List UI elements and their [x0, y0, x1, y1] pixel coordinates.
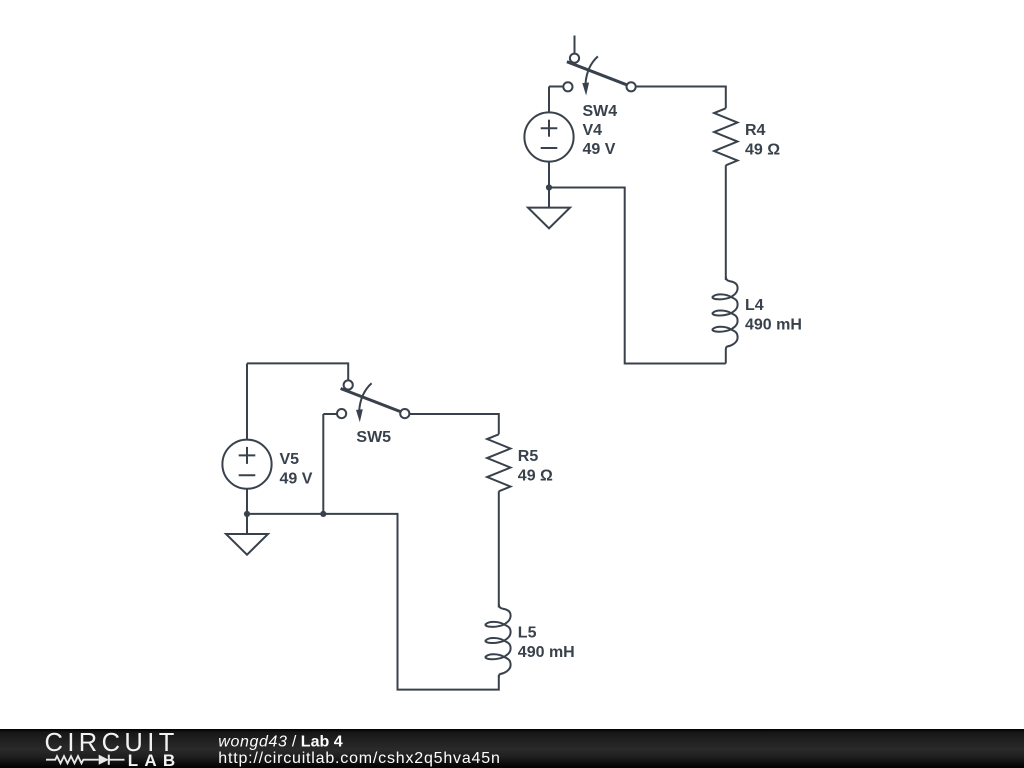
svg-text:wongd43 / Lab 4: wongd43 / Lab 4 — [218, 733, 342, 750]
svg-text:V5: V5 — [280, 451, 300, 468]
svg-text:R4: R4 — [745, 122, 766, 139]
svg-text:49 Ω: 49 Ω — [745, 142, 780, 159]
svg-text:SW5: SW5 — [356, 429, 391, 446]
svg-text:LAB: LAB — [128, 751, 182, 768]
svg-text:L5: L5 — [518, 624, 537, 641]
svg-text:49 V: 49 V — [280, 470, 313, 487]
svg-text:SW4: SW4 — [583, 103, 618, 120]
svg-text:49 Ω: 49 Ω — [518, 468, 553, 485]
svg-text:R5: R5 — [518, 448, 539, 465]
svg-text:49 V: 49 V — [583, 141, 616, 158]
svg-text:V4: V4 — [583, 122, 603, 139]
svg-text:490 mH: 490 mH — [745, 317, 802, 334]
svg-text:490 mH: 490 mH — [518, 644, 575, 661]
svg-text:L4: L4 — [745, 297, 764, 314]
svg-text:http://circuitlab.com/cshx2q5h: http://circuitlab.com/cshx2q5hva45n — [218, 750, 500, 767]
